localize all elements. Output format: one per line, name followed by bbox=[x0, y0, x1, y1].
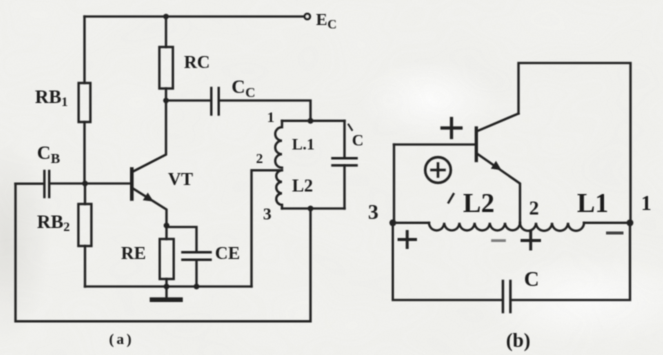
node: CE bottom junction bbox=[194, 284, 200, 290]
resistor RB1 bbox=[79, 83, 91, 122]
wire: CB to base bbox=[51, 182, 131, 184]
tank bottom wire bbox=[282, 207, 345, 209]
polarity plus at node 3 bbox=[399, 238, 416, 241]
capacitor CB bbox=[43, 171, 45, 197]
wire: RB2 bottom lead bbox=[84, 246, 86, 287]
node: collector / CC junction bbox=[163, 98, 169, 104]
node: RE bottom junction bbox=[164, 284, 170, 290]
wire: CE branch top bbox=[167, 227, 197, 252]
wire: bottom loop left bbox=[393, 223, 502, 300]
wire: L1 to node 1 bbox=[584, 222, 630, 224]
wire: CC to tank node 1 bbox=[220, 101, 310, 121]
capacitor CC bbox=[210, 88, 212, 115]
node 1 dot bbox=[308, 118, 314, 124]
circled plus source bbox=[425, 157, 451, 183]
polarity plus at node 2 bbox=[522, 239, 540, 242]
wire: rail riser to coil tap bbox=[252, 170, 282, 286]
inductor L2 (b) bbox=[429, 223, 520, 231]
wire: RC top lead bbox=[165, 17, 167, 48]
tank top wire bbox=[282, 120, 345, 122]
terminal EC (open circle) bbox=[305, 14, 310, 19]
node: base junction bbox=[82, 181, 88, 187]
wire: RC bottom lead bbox=[165, 89, 167, 101]
transistor (b) base bar bbox=[475, 128, 478, 161]
transistor VT base bar bbox=[130, 169, 134, 199]
wire: collector lead bbox=[133, 101, 166, 172]
inductor L2 (lower half of tapped coil) bbox=[276, 170, 282, 208]
wire: top supply rail bbox=[85, 15, 305, 17]
wire: RB1 top lead bbox=[83, 17, 85, 84]
inductor L1 (upper half of tapped coil) bbox=[275, 121, 282, 168]
resistor RC bbox=[159, 47, 173, 89]
plus sign above base bbox=[442, 126, 461, 129]
polarity minus near node 1 bbox=[608, 232, 623, 235]
capacitor C (b) bbox=[502, 281, 505, 312]
node 3 dot bbox=[308, 206, 314, 212]
wire: bottom loop right bbox=[511, 223, 630, 300]
wire: RB1 bottom lead to base node bbox=[83, 122, 85, 184]
wire: emitter lead bbox=[478, 154, 521, 223]
resistor RB2 bbox=[78, 204, 91, 246]
ground bbox=[165, 287, 167, 298]
wire: node3 to L2 bbox=[393, 222, 429, 224]
wire: base lead bbox=[394, 143, 475, 145]
inductor L1 (b) bbox=[520, 223, 584, 231]
wire: CE bottom lead bbox=[195, 260, 197, 287]
capacitor CE bbox=[183, 251, 211, 254]
node: emitter junction bbox=[164, 223, 170, 229]
wire: collector diagonal bbox=[478, 114, 519, 132]
node: top rail / RC junction bbox=[163, 14, 169, 20]
resistor RE bbox=[160, 239, 174, 279]
polarity minus near L2 end bbox=[493, 239, 505, 242]
wire: collector loop top bbox=[519, 63, 631, 223]
wire: inner emitter rail bbox=[85, 285, 252, 287]
small tick mark bbox=[449, 194, 454, 203]
wire: RB2 top lead bbox=[84, 184, 86, 205]
node 1 dot (b) bbox=[627, 219, 634, 226]
wire: to CC bbox=[166, 99, 210, 101]
label C (tank) bbox=[349, 125, 353, 131]
capacitor C (tank) bbox=[343, 121, 345, 158]
wire: RE top lead bbox=[165, 226, 167, 240]
wire: emitter lead bbox=[133, 189, 167, 226]
wire: RE bottom lead bbox=[165, 279, 167, 287]
wire: base down to node 3 bbox=[393, 145, 395, 223]
emitter arrow of VT bbox=[143, 193, 154, 202]
emitter arrow (b) bbox=[491, 161, 502, 170]
wire: left lead of CB bbox=[16, 183, 43, 185]
wire: outer feedback loop (left, bottom, right) bbox=[16, 184, 311, 322]
node 3 dot (b) bbox=[389, 219, 396, 226]
